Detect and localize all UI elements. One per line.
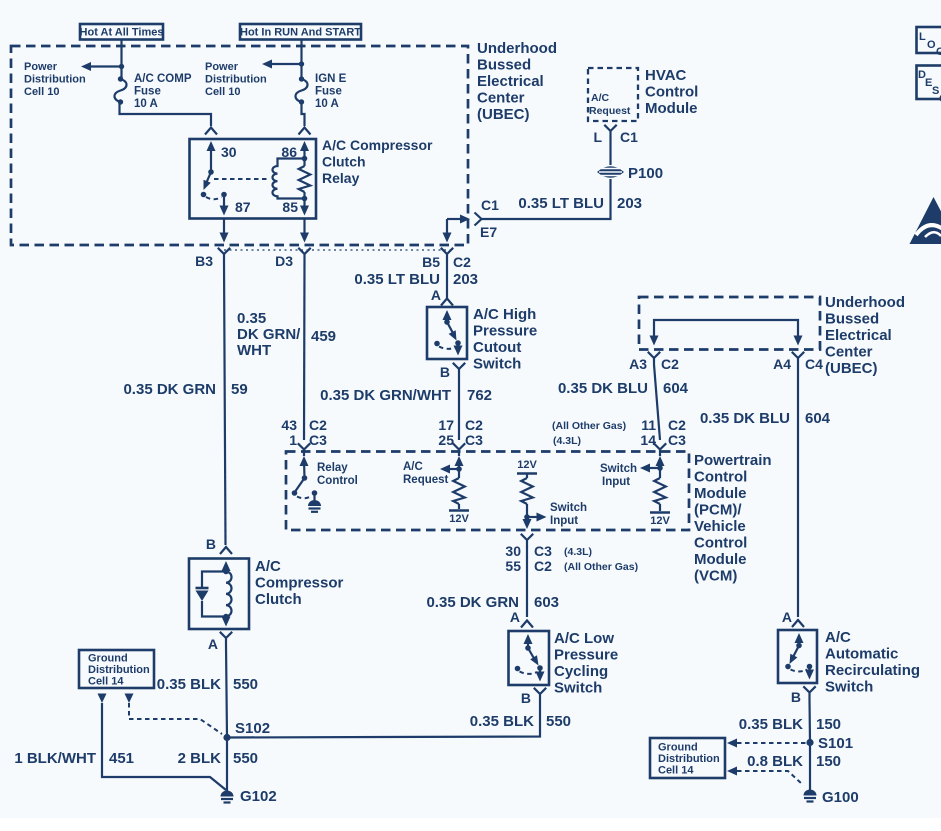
LP switch output arrow down (536, 668, 545, 682)
PCM switch input junction dot (657, 465, 663, 471)
svg-text:C2: C2 (453, 254, 471, 270)
svg-text:Power: Power (24, 61, 58, 73)
wire 1 BLK/WHT 451 (102, 703, 226, 790)
svg-text:Cell 14: Cell 14 (88, 676, 124, 688)
PCM switch input arrow right (527, 513, 547, 522)
svg-text:P100: P100 (628, 165, 663, 182)
svg-text:Underhood: Underhood (825, 294, 905, 311)
label HVAC Control Module (645, 67, 698, 117)
label (4.3L) bottom (553, 435, 581, 447)
label A/C Request (403, 461, 449, 486)
svg-text:Center: Center (825, 344, 873, 361)
svg-text:B: B (206, 536, 216, 552)
wire from Hot In RUN And START to fuse F2 (300, 40, 302, 79)
svg-text:459: 459 (311, 328, 336, 345)
dashed wire S101 to ground dist (arrow left) (727, 739, 806, 748)
svg-text:451: 451 (109, 750, 134, 767)
label IGN E Fuse 10 A (315, 73, 347, 110)
PCM relay control input arrow (300, 456, 309, 478)
svg-text:0.35 LT BLU: 0.35 LT BLU (518, 195, 604, 212)
ground G102 symbol (221, 791, 234, 803)
svg-text:(All Other Gas): (All Other Gas) (564, 561, 638, 573)
HP switch output arrow down (454, 343, 463, 356)
svg-text:203: 203 (453, 271, 478, 288)
wire S102 to G102 (226, 738, 228, 792)
pin label L (593, 129, 602, 145)
label 0.35 DK BLU 604 (A3 wire) (558, 380, 689, 397)
connector chevron at relay pin 86 (299, 128, 311, 135)
fuse A/C COMP Fuse 10 A (115, 76, 127, 104)
recirc switch output arrow down (805, 667, 814, 680)
pin label 86 (281, 144, 297, 160)
relay coil (inductor) (273, 159, 305, 199)
clutch bottom junction dot (223, 614, 229, 620)
connector fork B (recirc switch) (803, 686, 815, 699)
svg-text:A: A (431, 287, 441, 303)
PCM Powertrain Control Module box (dashed) (286, 452, 689, 531)
label A/C Low Pressure Cycling Switch (554, 630, 618, 697)
pin label B5 (422, 254, 440, 270)
connector fork B (LP switch) (534, 688, 546, 701)
relay pin 87 lead with down arrow (220, 195, 229, 216)
connector chevron at cycling switch (521, 621, 533, 628)
label 0.8 BLK 150 (747, 753, 841, 770)
pin label 30 (221, 144, 237, 160)
PCM relay control contact dot (312, 490, 318, 496)
svg-text:Cycling: Cycling (554, 663, 608, 680)
svg-text:A/C High: A/C High (473, 306, 536, 323)
svg-text:Automatic: Automatic (825, 646, 898, 663)
arrow down from ground dist box (left) (98, 694, 107, 704)
label Power Distribution Cell 10 (left) (24, 61, 86, 98)
svg-text:C1: C1 (620, 129, 638, 145)
svg-text:C3: C3 (534, 543, 552, 559)
label 0.35 BLK 550 (clutch wire) (157, 676, 258, 693)
label 12V (449, 513, 469, 525)
svg-text:A/C Compressor: A/C Compressor (322, 137, 433, 153)
label 459 (311, 328, 336, 345)
HP switch pivot dot (444, 319, 450, 325)
svg-text:(4.3L): (4.3L) (564, 546, 592, 558)
svg-text:L: L (919, 31, 926, 43)
svg-text:Hot At All Times: Hot At All Times (80, 27, 164, 39)
LP switch output dot (537, 665, 543, 671)
ground symbol inside PCM (308, 493, 321, 512)
HP switch left contact dot (434, 341, 440, 347)
PCM switch input (right) arrow up (656, 456, 665, 468)
svg-text:Clutch: Clutch (255, 591, 302, 608)
PCM relay control dashed arc (297, 496, 312, 499)
label A/C Request inside HVAC (589, 92, 631, 117)
wire LP switch B down and left to S102 (227, 701, 540, 738)
label S102 (235, 720, 270, 737)
svg-text:C3: C3 (465, 432, 483, 448)
wire 30/55 down to cycling switch (526, 546, 528, 617)
svg-text:Switch: Switch (600, 463, 637, 475)
svg-text:Switch: Switch (473, 356, 521, 373)
svg-text:Switch: Switch (550, 502, 587, 514)
pin label E7 (480, 224, 497, 240)
pin label B (HP switch) (440, 364, 450, 380)
connector fork A3 (648, 352, 660, 365)
label Powertrain Control Module (PCM)/Vehicle Control Module (VCM) (694, 452, 772, 585)
label (All Other Gas) top (552, 420, 626, 432)
PCM cycling switch junction dot (524, 514, 530, 520)
wire HVAC to P100 (609, 137, 611, 165)
wire clutch A down to S102 (226, 645, 227, 738)
svg-text:(UBEC): (UBEC) (825, 360, 878, 377)
PCM relay control blade (296, 478, 305, 491)
switch S1 A/C High Pressure Cutout Switch box (427, 307, 467, 359)
svg-text:Distribution: Distribution (658, 753, 720, 765)
connector fork 30/55 (521, 534, 533, 547)
svg-text:G100: G100 (822, 789, 859, 806)
svg-text:150: 150 (816, 716, 841, 733)
wire relay pin 85 to UBEC edge with down arrow (300, 219, 309, 243)
svg-text:0.35 BLK: 0.35 BLK (739, 716, 803, 733)
recirc switch input arrow (795, 633, 804, 646)
svg-text:B: B (791, 689, 801, 705)
svg-text:0.35 BLK: 0.35 BLK (470, 713, 534, 730)
svg-text:17: 17 (438, 417, 454, 433)
HP switch input arrow (443, 310, 452, 322)
HP switch blade with arrowhead (447, 322, 457, 341)
12V bar below switch input resistor (650, 512, 670, 514)
LP switch pivot dot (525, 645, 531, 651)
pin label B (recirc switch) (791, 689, 801, 705)
pin label C2 (B5) (453, 254, 471, 270)
label 1 BLK/WHT 451 (14, 750, 134, 767)
splice S101 dot (806, 739, 813, 746)
svg-text:S102: S102 (235, 720, 270, 737)
svg-text:85: 85 (282, 199, 298, 215)
label A/C Automatic Recirculating Switch (825, 629, 920, 696)
svg-text:0.35 DK GRN: 0.35 DK GRN (123, 381, 216, 398)
label 0.35 DK GRN/ WHT (237, 310, 301, 359)
svg-text:(UBEC): (UBEC) (477, 106, 530, 123)
wire S101 to G100 (809, 743, 811, 791)
svg-text:14: 14 (640, 432, 656, 448)
wire P100 down to corner and left to E7 (482, 179, 611, 219)
svg-text:D3: D3 (275, 253, 293, 269)
LP switch left contact dot (515, 666, 521, 672)
label 0.35 BLK 150 (739, 716, 841, 733)
label UBEC right (825, 294, 905, 377)
svg-text:A/C COMP: A/C COMP (134, 73, 192, 85)
LP switch input arrow (524, 634, 533, 648)
pin label 85 (282, 199, 298, 215)
UBEC underhood bussed electrical center box (dashed) (11, 46, 468, 245)
PCM relay control pivot dot (302, 475, 308, 481)
svg-text:Center: Center (477, 90, 525, 107)
svg-text:604: 604 (663, 380, 689, 397)
resistor pulldown switch input (654, 468, 666, 511)
svg-text:A/C: A/C (591, 92, 610, 104)
wire B5 to A/C High Pressure Cutout Switch (446, 260, 448, 298)
switch S3 A/C Automatic Recirculating Switch box (778, 630, 817, 683)
svg-text:Module: Module (694, 551, 747, 568)
relay coil bottom junction dot (302, 196, 308, 202)
svg-text:Vehicle: Vehicle (694, 518, 746, 535)
svg-text:Input: Input (602, 476, 630, 488)
svg-text:Electrical: Electrical (477, 73, 544, 90)
recirc switch blade with arrowhead (790, 646, 800, 665)
relay coil top junction dot (302, 156, 308, 162)
svg-text:1: 1 (289, 432, 297, 448)
label G102 (240, 788, 277, 805)
svg-text:Powertrain: Powertrain (694, 452, 772, 469)
pin label 17 / C2 (438, 417, 483, 433)
wire A3 to PCM pin 11/14 (654, 365, 660, 441)
svg-text:C2: C2 (534, 558, 552, 574)
HP switch output dot (455, 340, 461, 346)
svg-text:B: B (440, 364, 450, 380)
svg-text:(PCM)/: (PCM)/ (694, 502, 742, 519)
wire B3 down to A/C compressor clutch (224, 261, 226, 546)
relay switch pivot dot (208, 169, 214, 175)
relay pin 30 lead with up arrow (207, 141, 216, 172)
label UBEC left (477, 40, 557, 123)
HP switch dashed throw arc (439, 347, 456, 349)
svg-text:0.35 BLK: 0.35 BLK (157, 676, 221, 693)
relay switch contact dot (201, 192, 207, 198)
connector fork A4 (792, 352, 804, 365)
relay pin 87 contact dot (221, 192, 227, 198)
node Hot At All Times (80, 24, 164, 40)
svg-text:C2: C2 (309, 417, 327, 433)
svg-text:203: 203 (617, 195, 642, 212)
svg-text:Module: Module (645, 100, 698, 117)
connector fork B3 (218, 248, 230, 261)
label 0.35 DK BLU 604 (A4 wire) (700, 410, 831, 427)
svg-text:11: 11 (641, 417, 656, 433)
pin label A (clutch) (208, 636, 218, 652)
svg-text:Control: Control (694, 535, 747, 552)
resistor pulldown A/C request (453, 469, 465, 509)
label A/C High Pressure Cutout Switch (473, 306, 537, 373)
svg-text:Pressure: Pressure (554, 647, 618, 664)
fuse IGN E Fuse 10 A (296, 76, 308, 104)
junction dot (119, 64, 124, 69)
label 12V top (cycling switch pullup) (517, 459, 537, 471)
svg-text:Request: Request (403, 474, 449, 486)
LP switch blade with arrowhead (528, 648, 539, 666)
clutch input arrow (222, 561, 231, 572)
svg-text:Control: Control (645, 84, 698, 101)
clutch output arrow down (222, 617, 231, 627)
connector chevron at recirc switch (792, 620, 804, 627)
pin label A (high pressure switch) (431, 287, 441, 303)
pin label 43 / C2 (281, 417, 327, 433)
pin label 25 / C3 (438, 432, 483, 448)
svg-text:0.35 DK BLU: 0.35 DK BLU (700, 410, 790, 427)
pin label 30 / C3 (4.3L) (505, 543, 592, 559)
svg-text:L: L (593, 129, 602, 145)
svg-text:Ground: Ground (658, 742, 698, 754)
svg-text:A: A (782, 609, 792, 625)
label 2 BLK 550 (178, 750, 258, 767)
pin label A (cycling switch) (510, 609, 520, 625)
svg-text:Bussed: Bussed (825, 311, 879, 328)
label 0.35 LT BLU 203 (B5 wire) (354, 271, 478, 288)
svg-text:10 A: 10 A (134, 98, 158, 110)
connector chevron at HP switch (441, 299, 453, 306)
connector C2 thin dotted line (224, 249, 453, 251)
pin label 1 / C3 (289, 432, 327, 448)
label A/C Compressor Clutch Relay (322, 137, 433, 186)
svg-text:Input: Input (550, 515, 578, 527)
svg-text:B: B (521, 690, 531, 706)
wire fuse F2 to relay pin 86 (302, 102, 305, 126)
node Hot In RUN And START (240, 24, 361, 40)
label Switch Input (right) (600, 463, 637, 488)
pin label 55 / C2 (All Other Gas) (505, 558, 638, 574)
PCM A/C request junction dot (456, 466, 462, 472)
svg-text:0.35: 0.35 (237, 310, 266, 327)
svg-text:59: 59 (231, 381, 248, 398)
svg-text:86: 86 (281, 144, 297, 160)
clutch diode branch (202, 572, 226, 617)
svg-text:Clutch: Clutch (322, 154, 366, 170)
pin label 11 / C2 (641, 417, 686, 433)
svg-text:Control: Control (317, 475, 358, 487)
stamp box LOC (top right) (917, 27, 941, 58)
svg-text:30: 30 (221, 144, 237, 160)
label S101 (818, 735, 853, 752)
svg-text:Bussed: Bussed (477, 57, 531, 74)
svg-text:C2: C2 (668, 417, 686, 433)
connector fork 43/1 (298, 443, 310, 456)
svg-text:A/C: A/C (403, 461, 423, 473)
svg-text:0.35 LT BLU: 0.35 LT BLU (354, 271, 440, 288)
wire arrow to Power Distribution Cell 10 (left) (81, 62, 122, 71)
junction dot (299, 61, 304, 66)
Ground Distribution Cell 14 box (left) (79, 650, 154, 688)
svg-text:(All Other Gas): (All Other Gas) (552, 420, 626, 432)
svg-text:Fuse: Fuse (315, 86, 342, 98)
svg-text:A3: A3 (629, 356, 647, 372)
HVAC Control Module box (dashed) (588, 68, 638, 121)
dashed wire to S102 (129, 703, 222, 734)
svg-text:IGN E: IGN E (315, 73, 347, 85)
svg-text:603: 603 (534, 594, 559, 611)
svg-text:Distribution: Distribution (24, 74, 86, 86)
pin label 14 / C3 (640, 432, 686, 448)
relay mechanical dashed link (214, 178, 268, 180)
label 0.35 DK GRN/WHT 762 (320, 387, 492, 404)
svg-text:150: 150 (816, 753, 841, 770)
wire relay pin 87 to UBEC edge with down arrow (220, 219, 229, 243)
svg-text:Switch: Switch (554, 680, 602, 697)
A/C Compressor Clutch box (189, 559, 249, 630)
arrow down from ground dist box (right) (125, 694, 134, 704)
svg-text:Ground: Ground (88, 653, 128, 665)
label 0.35 DK GRN 603 (426, 594, 559, 611)
connector chevron at relay pin 30 (205, 128, 217, 135)
svg-text:O: O (927, 39, 936, 51)
svg-text:C2: C2 (661, 356, 679, 372)
svg-text:B3: B3 (195, 253, 213, 269)
svg-text:A: A (208, 636, 218, 652)
svg-text:25: 25 (438, 432, 454, 448)
pin label A3 / C2 (629, 356, 679, 372)
svg-text:A: A (510, 609, 520, 625)
relay switch blade with arrowhead (204, 172, 212, 190)
PCM A/C request arrow left (440, 465, 459, 474)
connector fork B5 (441, 248, 453, 261)
splice S102 dot (223, 734, 230, 741)
resistor pullup cycling switch (521, 474, 533, 518)
wire jumper inside UBEC right (650, 320, 803, 346)
wire HP switch B down to PCM pin 17/25 (458, 376, 460, 441)
label 0.35 LT BLU 203 (518, 195, 642, 212)
svg-text:87: 87 (235, 199, 251, 215)
connector fork B (HP switch) (453, 363, 465, 376)
pin label C1 (E7 connector) (481, 197, 499, 213)
svg-text:HVAC: HVAC (645, 67, 687, 84)
relay K1 A/C Compressor Clutch Relay box (190, 139, 317, 219)
label A/C Compressor Clutch (255, 558, 344, 608)
connector chevron E7/C1 at UBEC edge (475, 213, 482, 226)
svg-text:Cutout: Cutout (473, 339, 521, 356)
label G100 (822, 789, 859, 806)
wire D3 down to PCM pin 43/1 (303, 261, 306, 441)
relay dashed throw arc (206, 197, 222, 199)
label Relay Control (317, 462, 358, 487)
connector fork D3 (298, 248, 310, 261)
svg-text:C1: C1 (481, 197, 499, 213)
diode D1 (196, 588, 209, 601)
svg-text:550: 550 (546, 713, 571, 730)
recirc switch pivot dot (796, 643, 802, 649)
svg-text:Cell 10: Cell 10 (24, 86, 59, 98)
svg-text:Recirculating: Recirculating (825, 662, 920, 679)
svg-text:550: 550 (233, 676, 258, 693)
svg-text:Cell 14: Cell 14 (658, 765, 694, 777)
svg-text:12V: 12V (650, 515, 670, 527)
svg-text:Module: Module (694, 485, 747, 502)
connector fork L/C1 (604, 125, 616, 138)
svg-text:762: 762 (467, 387, 492, 404)
PCM A/C request input arrow (455, 456, 464, 469)
svg-text:C3: C3 (309, 432, 327, 448)
clutch coil (inductor) (226, 572, 232, 617)
svg-text:Power: Power (205, 61, 239, 73)
PCM switch input arrow left (640, 464, 660, 473)
label 0.35 DK GRN 59 (123, 381, 247, 398)
wire down to PCM bottom with arrow (523, 517, 532, 529)
svg-text:0.35 DK BLU: 0.35 DK BLU (558, 380, 648, 397)
label Switch Input (middle) (550, 502, 587, 527)
pin label 87 (235, 199, 251, 215)
label P100 (628, 165, 663, 182)
12V bar above pullup resistor (517, 473, 537, 475)
clutch top junction dot (223, 569, 229, 575)
UBEC right box (dashed) (639, 297, 820, 350)
pin label B (clutch) (206, 536, 216, 552)
recirc switch dashed throw arc (791, 670, 808, 672)
connector fork 11/14 (654, 443, 666, 456)
relay pin 86 lead with up arrow (300, 141, 309, 159)
label 12V (right) (650, 515, 670, 527)
wire recirc B down to S101 (808, 699, 811, 743)
svg-text:S101: S101 (818, 735, 853, 752)
LP switch dashed throw arc (520, 672, 538, 674)
svg-text:43: 43 (281, 417, 297, 433)
relay pin 85 lead with down arrow (300, 199, 309, 216)
svg-text:A/C: A/C (825, 629, 851, 646)
wire arrow to Power Distribution Cell 10 (middle) (262, 60, 302, 69)
